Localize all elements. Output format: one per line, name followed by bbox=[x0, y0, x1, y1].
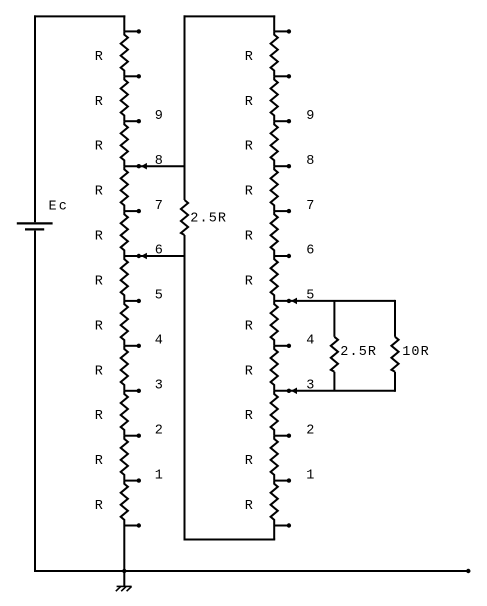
svg-text:3: 3 bbox=[306, 379, 314, 394]
wire: box bottom (2.5R column to right divider bottom) bbox=[184, 539, 276, 541]
resistor 10R (between right taps 5 and 3) bbox=[391, 300, 429, 392]
battery Ec bbox=[17, 200, 69, 230]
node 2: right divider tap bbox=[274, 423, 314, 438]
wire: top bus (2.5R column to right divider top) bbox=[184, 15, 276, 17]
node 2: left divider tap bbox=[124, 423, 163, 438]
svg-text:8: 8 bbox=[306, 154, 314, 169]
node 3: left divider tap bbox=[124, 379, 163, 394]
resistor R (left divider, section 11) bbox=[95, 481, 128, 526]
svg-text:2: 2 bbox=[155, 423, 163, 438]
node 8: right divider tap bbox=[274, 154, 314, 169]
wire: 2.5R column upper (top bus down to 2.5R) bbox=[184, 15, 186, 200]
svg-text:R: R bbox=[245, 409, 253, 424]
svg-text:Ec: Ec bbox=[49, 200, 70, 215]
svg-text:8: 8 bbox=[155, 154, 163, 169]
node 1: right divider tap bbox=[274, 468, 314, 483]
svg-text:R: R bbox=[245, 454, 253, 469]
resistor R (right divider, section 4) bbox=[245, 166, 278, 211]
wire: right divider top drop bbox=[273, 15, 275, 31]
svg-text:4: 4 bbox=[155, 334, 163, 349]
resistor R (right divider, section 8) bbox=[245, 346, 278, 391]
node: left divider upper tap bbox=[124, 74, 141, 78]
node 9: right divider tap bbox=[274, 109, 314, 124]
node 6: right divider tap bbox=[274, 244, 314, 259]
svg-text:1: 1 bbox=[155, 468, 163, 483]
svg-text:1: 1 bbox=[306, 468, 314, 483]
resistor R (left divider, section 2) bbox=[95, 76, 128, 121]
resistor 2.5R (between right taps 5 and 3) bbox=[331, 301, 377, 391]
svg-text:R: R bbox=[95, 95, 103, 110]
terminal: output dot at right end of ground bus bbox=[466, 569, 470, 573]
wire: left bus lower (battery - down to ground bus) bbox=[34, 231, 36, 572]
svg-text:R: R bbox=[95, 409, 103, 424]
wire: top bus (battery + to left divider top) bbox=[34, 15, 125, 17]
svg-text:R: R bbox=[245, 230, 253, 245]
resistor R (right divider, section 5) bbox=[245, 211, 278, 256]
node 4: left divider tap bbox=[124, 334, 163, 349]
resistor R (right divider, section 1) bbox=[245, 31, 278, 76]
resistor R (left divider, section 10) bbox=[95, 436, 128, 481]
wire: left divider bottom to ground bus bbox=[123, 526, 125, 572]
svg-text:5: 5 bbox=[306, 289, 314, 304]
svg-text:R: R bbox=[245, 364, 253, 379]
svg-text:3: 3 bbox=[155, 379, 163, 394]
svg-text:R: R bbox=[95, 319, 103, 334]
resistor R (right divider, section 7) bbox=[245, 301, 278, 346]
svg-text:6: 6 bbox=[306, 244, 314, 259]
svg-text:R: R bbox=[245, 95, 253, 110]
resistor R (left divider, section 3) bbox=[95, 121, 128, 166]
resistor R (left divider, section 6) bbox=[95, 256, 128, 301]
resistor R (left divider, section 5) bbox=[95, 211, 128, 256]
resistor R (right divider, section 10) bbox=[245, 436, 278, 481]
svg-text:9: 9 bbox=[155, 109, 163, 124]
node 7: right divider tap bbox=[274, 199, 314, 214]
resistor R (right divider, section 11) bbox=[245, 481, 278, 526]
svg-text:R: R bbox=[95, 185, 103, 200]
node 6: left divider tap with wire to 2.5R column bbox=[124, 244, 185, 260]
svg-text:2: 2 bbox=[306, 423, 314, 438]
svg-text:R: R bbox=[245, 50, 253, 65]
svg-text:R: R bbox=[95, 140, 103, 155]
resistor R (left divider, section 7) bbox=[95, 301, 128, 346]
node: right divider bottom tap bbox=[274, 523, 291, 527]
svg-text:5: 5 bbox=[155, 289, 163, 304]
svg-text:6: 6 bbox=[155, 244, 163, 259]
resistor R (left divider, section 4) bbox=[95, 166, 128, 211]
svg-text:R: R bbox=[245, 319, 253, 334]
svg-text:R: R bbox=[95, 50, 103, 65]
node: right divider top tap bbox=[274, 29, 291, 33]
wire: 2.5R column lower (2.5R down to box bottom) bbox=[184, 235, 186, 541]
resistor R (left divider, section 8) bbox=[95, 346, 128, 391]
svg-text:2.5R: 2.5R bbox=[340, 345, 377, 360]
svg-text:R: R bbox=[245, 185, 253, 200]
resistor R (right divider, section 9) bbox=[245, 391, 278, 436]
ground bbox=[116, 571, 132, 591]
node 5: left divider tap bbox=[124, 289, 163, 304]
node 8: left divider tap with wire to 2.5R column bbox=[124, 154, 185, 170]
resistor R (right divider, section 3) bbox=[245, 121, 278, 166]
resistor R (left divider, section 1) bbox=[95, 31, 128, 76]
svg-text:7: 7 bbox=[155, 199, 163, 214]
svg-text:R: R bbox=[95, 230, 103, 245]
node 1: left divider tap bbox=[124, 468, 163, 483]
wire: ground bus (bottom, left bus to output terminal) bbox=[34, 570, 468, 572]
svg-text:R: R bbox=[95, 499, 103, 514]
node: left divider bottom tap bbox=[124, 523, 141, 527]
svg-text:R: R bbox=[95, 454, 103, 469]
node: right divider upper tap bbox=[274, 74, 291, 78]
wire: left divider top drop bbox=[123, 15, 125, 31]
svg-text:10R: 10R bbox=[402, 345, 430, 360]
node 5: right divider tap with wire to 2.5R/10R pair bbox=[274, 289, 395, 305]
node: left divider top tap bbox=[124, 29, 141, 33]
svg-text:7: 7 bbox=[306, 199, 314, 214]
svg-text:2.5R: 2.5R bbox=[190, 212, 227, 227]
node 4: right divider tap bbox=[274, 334, 314, 349]
svg-text:R: R bbox=[245, 140, 253, 155]
svg-text:R: R bbox=[95, 364, 103, 379]
wire: left bus upper (battery + up to top) bbox=[34, 15, 36, 222]
svg-text:9: 9 bbox=[306, 109, 314, 124]
wire: right divider bottom to box bottom bbox=[273, 526, 275, 540]
junction: left divider / ground bus bbox=[122, 569, 126, 573]
svg-text:R: R bbox=[95, 275, 103, 290]
svg-text:R: R bbox=[245, 499, 253, 514]
resistor R (right divider, section 2) bbox=[245, 76, 278, 121]
node 7: left divider tap bbox=[124, 199, 163, 214]
resistor R (right divider, section 6) bbox=[245, 256, 278, 301]
resistor R (left divider, section 9) bbox=[95, 391, 128, 436]
svg-text:4: 4 bbox=[306, 334, 314, 349]
node 3: right divider tap with wire to 2.5R/10R pair bbox=[274, 379, 395, 395]
resistor 2.5R (between left taps 8 and 6) bbox=[181, 200, 227, 235]
svg-text:R: R bbox=[245, 275, 253, 290]
node 9: left divider tap bbox=[124, 109, 163, 124]
